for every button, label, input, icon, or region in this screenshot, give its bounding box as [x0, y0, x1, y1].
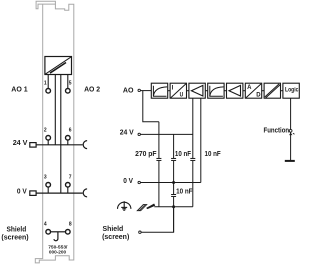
- node shield: [139, 231, 141, 233]
- svg-text:000-200: 000-200: [49, 249, 66, 255]
- D/A converter U1: [45, 57, 72, 75]
- svg-text:0 V: 0 V: [123, 176, 134, 185]
- svg-text:10 nF: 10 nF: [176, 188, 192, 195]
- node AO: [138, 89, 140, 91]
- capacitor C4 10nF lower: [171, 195, 176, 197]
- wire 24V rail right: [141, 133, 193, 135]
- terminal 6: [66, 136, 71, 141]
- 24V connector plug: [30, 143, 36, 148]
- wire 0V rail right: [141, 182, 201, 184]
- function select node: [289, 129, 292, 132]
- wire AO filter branch: [158, 122, 160, 207]
- wire box2-box3: [187, 90, 189, 92]
- junction dot 0V / shield branch: [172, 181, 175, 184]
- node 24V: [138, 133, 140, 135]
- terminal 7: [66, 183, 71, 188]
- terminal 1: [46, 89, 51, 94]
- wire terminal 3 to 0V rail: [47, 187, 49, 193]
- box U8 galvanic isolation: [264, 83, 280, 98]
- svg-text:(screen): (screen): [1, 232, 29, 241]
- wire amp return branch: [200, 98, 202, 182]
- box U9 Logic: [283, 83, 299, 98]
- terminal 5: [66, 89, 71, 94]
- svg-text:D: D: [256, 92, 261, 98]
- wire box3-box4: [205, 90, 207, 92]
- wire amp positive supply branch: [192, 98, 194, 207]
- node 0V: [138, 181, 140, 183]
- svg-text:4: 4: [44, 221, 47, 227]
- terminal 4: [46, 230, 51, 235]
- wire DAC to 0V rail: [60, 75, 62, 194]
- box U5 characteristic curve: [208, 83, 224, 98]
- svg-text:Logic: Logic: [285, 86, 299, 93]
- functional earth symbol: [118, 201, 131, 210]
- wire box7-box8: [281, 90, 283, 92]
- svg-text:24 V: 24 V: [13, 138, 29, 147]
- box U2 characteristic curve: [151, 83, 167, 98]
- wire shield screen to rail: [141, 207, 173, 232]
- capacitor C2 10nF: [171, 158, 176, 160]
- 0V connector plug: [30, 191, 36, 196]
- svg-text:2: 2: [44, 127, 47, 133]
- svg-text:AO: AO: [123, 86, 134, 95]
- svg-text:AO 1: AO 1: [11, 85, 28, 94]
- wire box6-box7: [262, 90, 264, 92]
- svg-text:AO 2: AO 2: [84, 85, 100, 94]
- svg-text:10 nF: 10 nF: [175, 151, 191, 158]
- svg-text:3: 3: [44, 174, 47, 180]
- capacitor C1 270pF: [156, 158, 161, 160]
- wire 24V filter branch: [173, 134, 175, 232]
- shield clamp symbol: [137, 204, 155, 211]
- function select wiper: [289, 133, 292, 136]
- svg-text:A: A: [247, 85, 252, 91]
- 0V power jumper contact: [83, 189, 87, 197]
- shield clamp hook: [54, 232, 58, 241]
- wire box4-box5: [224, 90, 226, 92]
- shield rail: [154, 206, 193, 208]
- 0V rail: [36, 192, 83, 194]
- shield bus terminals 4-8: [50, 231, 65, 233]
- wire box5-box6: [243, 90, 245, 92]
- capacitor C3 10nF: [190, 158, 195, 160]
- wire terminal 7 to 0V rail: [67, 187, 69, 193]
- junction dot shield rail: [172, 205, 175, 208]
- box U4 amplifier: [189, 83, 205, 98]
- terminal 8: [66, 230, 71, 235]
- svg-text:1: 1: [44, 80, 47, 86]
- 24V rail: [36, 144, 83, 146]
- svg-text:10 nF: 10 nF: [205, 151, 221, 158]
- wire terminal 2 to 24V rail: [47, 140, 49, 145]
- wire AO branch drop: [143, 91, 159, 122]
- svg-text:6: 6: [69, 127, 72, 133]
- box U6 amplifier: [227, 83, 243, 98]
- svg-text:5: 5: [69, 80, 72, 86]
- module housing outline: [35, 4, 74, 263]
- terminal 2: [46, 136, 51, 141]
- wire terminal 1 to DAC: [47, 75, 49, 89]
- wire Function line: [290, 98, 292, 160]
- svg-text:Function: Function: [264, 126, 290, 135]
- wire box1-box2: [168, 90, 170, 92]
- terminal 3: [46, 183, 51, 188]
- svg-text:8: 8: [69, 221, 72, 227]
- wire terminal 6 to 24V rail: [67, 140, 69, 145]
- svg-text:(screen): (screen): [102, 232, 130, 241]
- svg-text:7: 7: [69, 174, 72, 180]
- svg-text:270 pF: 270 pF: [135, 151, 157, 158]
- svg-text:24 V: 24 V: [120, 128, 135, 137]
- svg-text:0 V: 0 V: [17, 186, 28, 195]
- box U7 A/D converter: [245, 83, 261, 98]
- module housing top interlock block: [36, 1, 55, 8]
- wire AO to box row: [141, 90, 152, 92]
- function terminator bar: [285, 160, 295, 162]
- wire terminal 5 to DAC: [67, 75, 69, 89]
- wire DAC to 24V rail: [54, 75, 56, 145]
- svg-text:U: U: [180, 93, 184, 99]
- 24V power jumper contact: [83, 141, 87, 149]
- box U3 I/U converter: [170, 83, 186, 98]
